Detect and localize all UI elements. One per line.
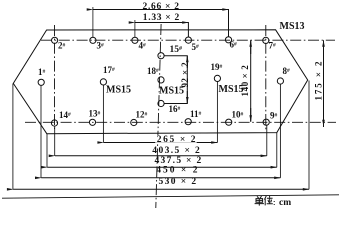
- svg-text:11#: 11#: [190, 109, 202, 119]
- svg-text:140 × 2: 140 × 2: [240, 65, 250, 97]
- svg-text:4#: 4#: [139, 41, 147, 51]
- dimension 92x2 up arrow: [186, 56, 188, 68]
- anchor circle 16#: [158, 100, 164, 106]
- wire extension 8# down: [279, 84, 281, 178]
- unit note 单位: cm: [255, 196, 292, 208]
- anchor circle 1#: [38, 79, 44, 85]
- svg-text:2.66 × 2: 2.66 × 2: [143, 2, 180, 12]
- svg-text:8#: 8#: [283, 66, 291, 76]
- svg-text:16#: 16#: [169, 104, 181, 114]
- centerline vertical 2-14: [54, 25, 56, 129]
- dimension 175x2 up arrow: [323, 41, 325, 54]
- anchor circle 4#: [132, 37, 138, 43]
- dimension 175x2 down arrow: [323, 108, 325, 126]
- wire extension 17# down: [102, 85, 104, 143]
- dimension 175x2 vertical line: [323, 40, 325, 127]
- svg-text:18#: 18#: [147, 66, 159, 76]
- anchor circle 7#: [263, 37, 269, 43]
- dimension 450x2 line: [41, 177, 280, 179]
- svg-text:12#: 12#: [136, 110, 148, 120]
- dimension 437.5x2 line: [47, 166, 277, 168]
- wire extension left vertex down: [12, 84, 14, 190]
- centerline vertical center axis: [156, 24, 161, 208]
- dimension 2.66x2 right arrow: [216, 9, 229, 11]
- dimension 140x2 up arrow: [250, 41, 252, 54]
- centerline top row: [41, 39, 335, 41]
- anchor circle 8#: [277, 78, 283, 84]
- unit colon: [273, 201, 275, 205]
- svg-text:MS13: MS13: [280, 21, 305, 32]
- value 265x2: [155, 135, 197, 142]
- dimension 530x2 line: [13, 188, 309, 190]
- svg-text:10#: 10#: [232, 110, 244, 120]
- svg-text:15#: 15#: [170, 45, 183, 55]
- svg-text:2#: 2#: [58, 41, 66, 51]
- svg-text:403.5 × 2: 403.5 × 2: [152, 146, 201, 156]
- glyph 位: [264, 196, 272, 206]
- anchor circle 10#: [226, 119, 232, 125]
- anchor circle 13#: [89, 119, 95, 125]
- svg-text:5#: 5#: [192, 42, 200, 52]
- svg-text:1#: 1#: [38, 67, 46, 77]
- svg-text:6#: 6#: [230, 40, 238, 50]
- svg-text:9#: 9#: [270, 111, 278, 121]
- anchor circle 11#: [185, 119, 191, 125]
- bottom rule line: [2, 195, 339, 198]
- dimension 92x2 down arrow: [186, 91, 188, 103]
- glyph 单: [255, 196, 264, 205]
- svg-text:450 × 2: 450 × 2: [156, 166, 199, 176]
- svg-text:7#: 7#: [269, 41, 277, 51]
- svg-text:175 × 2: 175 × 2: [314, 60, 324, 101]
- dimension 2.66x2 line: [93, 10, 229, 38]
- centerline vertical 7-9: [265, 25, 267, 130]
- wire extension right vertex down: [308, 81, 310, 190]
- wire extension bottom-right vertex down: [276, 133, 278, 167]
- svg-text:17#: 17#: [103, 65, 115, 75]
- wire extension 4# up: [134, 20, 136, 38]
- dimension 265x2 line: [104, 142, 218, 144]
- anchor circle 3#: [90, 37, 96, 43]
- anchor circle 5#: [185, 37, 191, 43]
- centerline bottom row: [25, 121, 336, 123]
- dimension 1.33x2 right arrow: [176, 22, 188, 24]
- dimension 140x2 down arrow: [250, 108, 252, 121]
- dimension 403.5x2 line: [55, 155, 267, 157]
- svg-text:437.5 × 2: 437.5 × 2: [155, 156, 203, 166]
- svg-text:cm: cm: [279, 198, 291, 208]
- anchor circle 19#: [214, 75, 220, 81]
- dimension 1.33x2 line: [135, 23, 189, 38]
- anchor circle 14#: [51, 120, 57, 126]
- svg-text:1.33 × 2: 1.33 × 2: [143, 13, 180, 23]
- anchor circle 9#: [263, 119, 269, 125]
- wire extension 14# down: [54, 126, 56, 156]
- wire extension bottom-left vertex down: [46, 134, 48, 167]
- anchor circle 17#: [100, 79, 106, 85]
- wire extension 3# up: [92, 7, 94, 38]
- dimension 92x2 rectangle: [164, 56, 187, 104]
- wire extension 1# down: [40, 86, 42, 178]
- svg-text:92 × 2: 92 × 2: [180, 62, 190, 88]
- svg-text:3#: 3#: [97, 41, 105, 51]
- svg-text:14#: 14#: [59, 110, 71, 120]
- svg-text:13#: 13#: [89, 109, 101, 119]
- wire extension 9# down: [266, 125, 268, 156]
- hexagon outline: [13, 30, 307, 134]
- anchor circle 15#: [158, 53, 164, 59]
- wire extension 19# down: [216, 82, 218, 143]
- svg-text:19#: 19#: [211, 62, 223, 72]
- dimension 140x2 vertical line: [250, 40, 252, 122]
- anchor circle 18#: [158, 77, 164, 83]
- anchor circle 2#: [52, 37, 58, 43]
- anchor circle 6#: [225, 37, 231, 43]
- svg-text:265 × 2: 265 × 2: [157, 135, 197, 145]
- svg-text:530 × 2: 530 × 2: [159, 177, 198, 187]
- svg-text:MS15: MS15: [106, 84, 131, 95]
- anchor circle 12#: [131, 119, 137, 125]
